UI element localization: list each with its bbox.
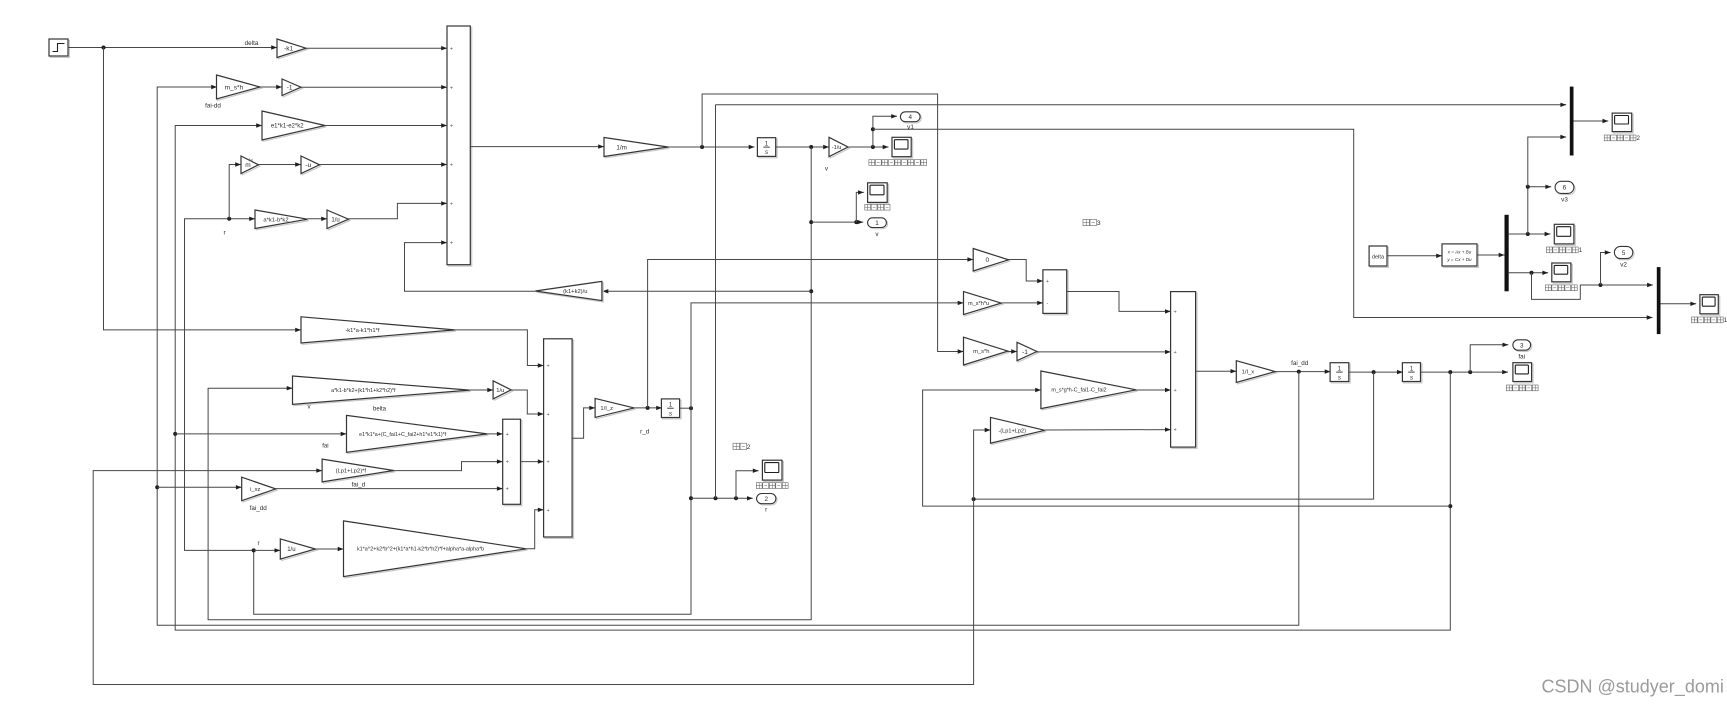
svg-text:6: 6 (1563, 185, 1567, 192)
wire sum3 -> sum2 in3 (521, 461, 544, 463)
gain -(Lp1+Lp2) (992, 419, 1046, 445)
label 方程3 (1083, 219, 1089, 225)
gain a*k1-b*k2 (256, 211, 309, 230)
wire m_s*h -> gain -1 (260, 86, 282, 88)
gain e1*k1-e2*k2 (263, 112, 326, 141)
wire 1/u bottom -> big gain (316, 548, 344, 550)
wire m_s*h*u -> sum4 - (1001, 302, 1043, 304)
gain 1/m (605, 139, 669, 158)
source block Step (delta input) (50, 40, 69, 57)
sum block sum1 (448, 27, 471, 266)
label 车身侧倾角 (1506, 385, 1512, 391)
svg-text:+: + (506, 432, 509, 438)
sum block sum4 (1044, 271, 1068, 315)
scope block body roll angle (1514, 364, 1533, 383)
gain m (242, 157, 259, 175)
svg-text:-: - (1046, 301, 1048, 307)
scope block yaw rate compare 2 (1614, 115, 1634, 134)
svg-text:fai: fai (249, 158, 253, 163)
wire integrator4 -> scope (fai net), branches to port3 and bottom feedback (1421, 371, 1509, 373)
svg-text:1: 1 (1338, 366, 1342, 373)
svg-text:(k1+k2)/u: (k1+k2)/u (563, 289, 587, 295)
wire big gain -> sum2 in4 (526, 510, 543, 549)
wire 1/m -> integrator1, junction up to y94 line -> m_s*h right (668, 146, 755, 148)
gain (k1+k2)/u (left-pointing) (537, 283, 604, 302)
label 质心侧偏角1 (1691, 317, 1697, 323)
svg-text:s: s (669, 410, 672, 417)
svg-text:1: 1 (765, 141, 769, 148)
output port 3 fai (1514, 341, 1532, 351)
svg-text:+: + (450, 46, 453, 52)
wire sum4 -> sum5 in1 (1067, 292, 1171, 312)
svg-text:s: s (1338, 374, 1341, 381)
output port 6 v3 (1556, 183, 1575, 195)
gain -1 right (1018, 344, 1038, 362)
wire integrator1 -> -1/u with junctions (v net) (776, 146, 829, 148)
wire demux out2 -> scope sideslip, elbow path to port5 and mux3 (1509, 272, 1549, 274)
svg-text:r_d: r_d (640, 429, 650, 436)
wire gain -> 1/u mid (470, 389, 494, 391)
svg-text:v: v (308, 404, 311, 410)
gain m_s*g*h-C_fai1-C_fai2 (1042, 372, 1137, 410)
svg-text:-1: -1 (287, 85, 293, 92)
svg-text:2: 2 (1637, 135, 1641, 142)
gain 1/u mid (494, 382, 512, 400)
wire 1/I_z -> integrator2 with branch up to gain 0 (634, 407, 662, 409)
integrator1 1/s (759, 139, 777, 158)
state-space block x=Ax+Bu y=Cx+Du (1443, 245, 1478, 267)
wire -k1*a-k1*h1*f -> sum2 in1 (455, 330, 544, 366)
integrator4 1/s (1404, 364, 1422, 383)
svg-text:-1: -1 (1022, 349, 1028, 356)
wire state-space -> demux (1477, 254, 1505, 256)
wire e1*k1-e2*k2 -> sum1 (325, 125, 447, 127)
wire 1/u -> sum1 (elbow up) (349, 203, 448, 218)
svg-text:2: 2 (747, 444, 751, 451)
wire v net vertical down (to port1/scope, (k1+k2)/u, bottom feedback to a*k1-b*k2+... gain) (208, 147, 811, 620)
wire sum2 -> 1/I_z (572, 408, 595, 438)
wire m -> -u (259, 164, 302, 166)
label 方程2 (733, 443, 739, 449)
svg-text:+: + (506, 460, 509, 466)
svg-text:1: 1 (669, 402, 673, 409)
svg-text:v1: v1 (907, 124, 914, 131)
gain 0 (975, 250, 1010, 272)
svg-text:v3: v3 (1561, 197, 1568, 204)
gain -1 top (283, 80, 302, 97)
svg-text:-(Lp1+Lp2): -(Lp1+Lp2) (998, 428, 1026, 434)
wire r net top line to mux1 input1 (716, 104, 1567, 106)
wire -(Lp1+Lp2) -> sum5 in4 (1045, 429, 1171, 431)
svg-text:fai: fai (322, 443, 328, 449)
demux bar (1505, 215, 1509, 291)
gain 1/u bottom (282, 540, 317, 560)
svg-text:fai_dd: fai_dd (1291, 360, 1309, 367)
gain m_s*h right (965, 339, 1009, 367)
wire gain -> sum3 in1 (487, 433, 503, 435)
gain -k1 (278, 40, 307, 59)
svg-text:1/u: 1/u (287, 547, 295, 553)
svg-text:e1*k1*a+(C_fai1+C_fai2+h1*e1*k: e1*k1*a+(C_fai1+C_fai2+h1*e1*k1)*f (359, 432, 447, 438)
svg-text:0: 0 (985, 257, 989, 264)
svg-text:e1*k1-e2*k2: e1*k1-e2*k2 (271, 124, 304, 130)
source block delta (1371, 247, 1389, 267)
svg-text:delta: delta (1372, 255, 1385, 261)
gain i_xz (243, 479, 277, 503)
svg-text:-1/u: -1/u (832, 145, 842, 151)
scope block yaw rate (764, 462, 784, 482)
gain a*k1-b*k2+(k1*h1+k2*h2)*f (294, 377, 471, 405)
wire (k1+k2)/u -> sum1 input6 (405, 243, 536, 292)
wire -1 right -> sum5 in2 (1037, 351, 1171, 353)
svg-text:+: + (546, 364, 549, 370)
wire r net: integrator2 out junctions, up to m_s*h*u, down to port2/scope and bottom feedback (680, 407, 691, 409)
svg-text:fai: fai (1518, 353, 1525, 360)
gain -k1*a-k1*h1*f (302, 318, 456, 344)
wire delta -> state-space (1387, 255, 1442, 257)
svg-text:1/u: 1/u (496, 388, 504, 394)
svg-text:+: + (546, 508, 549, 514)
svg-text:a*k1-b*k2: a*k1-b*k2 (263, 217, 288, 223)
wire (Lp1+Lp2)*f -> sum3 in2 (394, 462, 503, 471)
scope block lateral velocity (869, 184, 889, 204)
wire mux3 -> scope sideslip compare 1 (1661, 303, 1697, 305)
gain e1*k1*a+(C_fai1+C_fai2+h1*e1*k1)*f (348, 417, 489, 454)
svg-text:m: m (245, 162, 250, 169)
wire m_s*g*h gain -> sum5 in3 (1136, 389, 1171, 391)
label 横摆角速度 (756, 483, 762, 489)
svg-text:+: + (1173, 310, 1176, 316)
svg-text:k1*a^2+k2*b^2+(k1*a*h1-k2*b*h2: k1*a^2+k2*b^2+(k1*a*h1-k2*b*h2)*f+alpha*… (357, 547, 484, 553)
svg-text:1/m: 1/m (616, 144, 627, 151)
output port 4 v1 (902, 113, 922, 123)
wire 0 -> sum4 + (1009, 260, 1044, 282)
svg-text:fai_dd: fai_dd (250, 505, 268, 512)
wire a*k1-b*k2 -> 1/u (308, 218, 328, 220)
gain m_s*h (218, 76, 261, 100)
svg-text:4: 4 (908, 114, 912, 121)
gain k1*a^2+k2*b^2+(k1*a*h1-k2*b*h2)*f+alpha*a-alpha*b (345, 522, 528, 578)
wire integrator3 -> integrator4 (fai_d net) with down branch (1349, 371, 1403, 373)
scope block (mass-center sideslip angle rad) (893, 139, 912, 158)
svg-text:(Lp1+Lp2)*f: (Lp1+Lp2)*f (336, 469, 367, 475)
integrator3 1/s (1332, 364, 1351, 383)
svg-text:m_s*h: m_s*h (973, 349, 989, 355)
svg-text:+: + (450, 241, 453, 247)
label 横摆角速度1 (1546, 247, 1552, 253)
scope block sideslip compare 1 (1701, 296, 1719, 315)
svg-text:belta: belta (373, 406, 387, 412)
output port 2 r (758, 495, 777, 505)
svg-text:s: s (765, 149, 768, 156)
scope block yaw rate compare 1 (1556, 226, 1576, 246)
svg-text:y = Cx + Du: y = Cx + Du (1446, 257, 1472, 262)
svg-text:fai-dd: fai-dd (205, 103, 221, 110)
svg-text:1/I_x: 1/I_x (1242, 370, 1255, 376)
wire demux out1 -> scope yaw rate 1, branches to port6 and mux1 (1509, 233, 1551, 235)
gain m_s*h*u (965, 293, 1003, 316)
label 侧向速度 (865, 204, 871, 210)
svg-text:1: 1 (1410, 366, 1414, 373)
wire mux1 -> scope yaw rate 2 (1574, 120, 1609, 122)
wire sum5 -> 1/I_x (1196, 370, 1237, 372)
svg-text:1: 1 (875, 220, 879, 227)
svg-text:3: 3 (1520, 342, 1524, 349)
svg-text:i_xz: i_xz (250, 487, 260, 493)
svg-text:v2: v2 (1620, 261, 1627, 268)
scope block sideslip linear (1553, 264, 1572, 283)
gain (Lp1+Lp2)*f (323, 460, 395, 483)
svg-text:+: + (1173, 350, 1176, 356)
svg-text:x = Ax + Bu: x = Ax + Bu (1447, 249, 1472, 254)
svg-text:fai_d: fai_d (352, 482, 366, 489)
svg-text:m_s*g*h-C_fai1-C_fai2: m_s*g*h-C_fai1-C_fai2 (1051, 388, 1106, 394)
wire -1/u -> scope, branches to out4 and v1 line (848, 146, 889, 148)
svg-text:+: + (1046, 279, 1049, 285)
svg-text:m_s*h: m_s*h (225, 84, 244, 91)
gain 1/u row5 (328, 211, 350, 230)
svg-text:+: + (450, 124, 453, 130)
wire -u -> sum1 (320, 164, 448, 166)
wire sum1 -> gain 1/m (470, 146, 604, 148)
svg-text:2: 2 (764, 496, 768, 503)
mux3 bar (1657, 267, 1661, 334)
wire delta net (step -> -k1, branch down to -k1*a-k1*h1*f gain) (68, 47, 277, 49)
svg-text:+: + (546, 412, 549, 418)
svg-text:3: 3 (1097, 220, 1101, 227)
mux1 bar (1570, 87, 1574, 156)
svg-text:5: 5 (1622, 250, 1626, 257)
svg-text:m_s*h*u: m_s*h*u (968, 301, 989, 307)
gain 1/I_x (1238, 362, 1277, 384)
svg-text:+: + (450, 163, 453, 169)
svg-text:delta: delta (245, 40, 259, 47)
label 横摆角速度2 (1604, 135, 1610, 141)
label 质心侧偏角（弧度） (869, 160, 875, 166)
label 质心侧偏角 (1545, 285, 1551, 291)
svg-text:+: + (506, 487, 509, 493)
svg-text:+: + (546, 460, 549, 466)
svg-text:-u: -u (306, 162, 312, 169)
sum block sum5 (1172, 293, 1197, 449)
wire m_s*h right -> -1 right (1008, 351, 1017, 353)
svg-text:+: + (450, 85, 453, 91)
svg-text:+: + (1173, 428, 1176, 434)
output port 5 v2 (1616, 248, 1634, 260)
svg-text:r: r (257, 540, 259, 547)
wire -k1 -> sum1 (306, 47, 447, 49)
svg-text:s: s (1410, 374, 1413, 381)
svg-text:-k1*a-k1*h1*f: -k1*a-k1*h1*f (345, 328, 380, 334)
svg-text:r: r (223, 230, 225, 237)
integrator2 1/s (663, 400, 681, 419)
svg-text:CSDN @studyer_domi: CSDN @studyer_domi (1542, 677, 1724, 698)
wire i_xz -> sum3 in3 (276, 488, 503, 490)
gain -u (302, 157, 321, 175)
svg-text:a*k1-b*k2+(k1*h1+k2*h2)*f: a*k1-b*k2+(k1*h1+k2*h2)*f (331, 388, 396, 394)
wire 1/I_x -> integrator3 (fai_dd net) with down branch (1275, 371, 1330, 373)
svg-text:1/u: 1/u (331, 217, 339, 223)
output port 1 v (869, 219, 888, 229)
svg-text:+: + (450, 202, 453, 208)
svg-text:+: + (1173, 388, 1176, 394)
svg-text:-k1: -k1 (284, 46, 293, 53)
sum block sum3 (504, 421, 522, 506)
wire -1 -> sum1 (301, 86, 447, 88)
svg-text:1: 1 (1579, 247, 1583, 254)
svg-text:1/I_z: 1/I_z (600, 406, 613, 412)
sum block sum2 (545, 340, 574, 538)
gain 1/I_z (596, 400, 635, 419)
svg-text:r: r (765, 507, 767, 514)
gain -1/u (830, 139, 849, 158)
wire 1/u mid -> sum2 in2 (511, 390, 543, 414)
